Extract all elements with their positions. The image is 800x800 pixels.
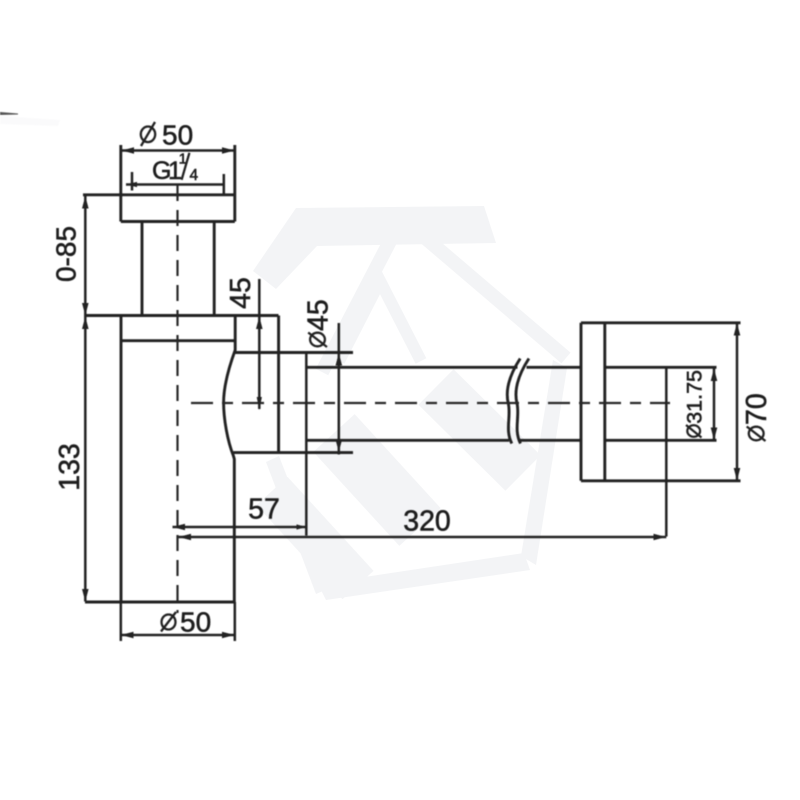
svg-text:45: 45 bbox=[303, 299, 335, 331]
arrow 0-85 top bbox=[82, 196, 89, 209]
dim line G1 1/4 bbox=[126, 183, 224, 186]
wall flange right edge bbox=[603, 323, 606, 481]
ext 57 right / nut right edge bbox=[305, 353, 308, 536]
ext Ø50 bottom right bbox=[234, 602, 237, 641]
wall flange bottom edge + Ø70 extension bbox=[581, 479, 741, 482]
svg-text:G1: G1 bbox=[152, 157, 181, 185]
arm bottom edge bbox=[233, 451, 353, 454]
top cap flange bbox=[83, 193, 235, 196]
arrow O50 bottom left bbox=[121, 632, 134, 639]
arrow G1 left bbox=[126, 182, 137, 187]
label G1 1/4 bbox=[152, 151, 199, 186]
arrow 0-85 bottom bbox=[82, 303, 89, 316]
arrow O45 top bbox=[336, 353, 343, 366]
arrow 57 right bbox=[297, 524, 307, 529]
nut left edge bbox=[277, 316, 280, 453]
dim line 320 bbox=[179, 536, 667, 539]
pipe bottom edge bbox=[306, 439, 716, 442]
label Ø50 top bbox=[141, 119, 193, 150]
label Ø50 bottom bbox=[161, 607, 211, 638]
arrow O31.75 bottom bbox=[711, 428, 718, 441]
arrow 45 top bbox=[256, 317, 263, 330]
horizontal centerline of outlet pipe bbox=[191, 402, 670, 404]
dim line Ø50 top bbox=[121, 149, 235, 152]
dim line Ø70 bbox=[736, 323, 739, 481]
label 133 bbox=[54, 443, 86, 491]
arrow O70 bottom bbox=[734, 468, 741, 481]
svg-text:320: 320 bbox=[403, 506, 451, 538]
dim line Ø45 bbox=[338, 323, 341, 455]
svg-text:50: 50 bbox=[162, 119, 193, 150]
arrow 133 bottom bbox=[82, 589, 89, 602]
arrow 45 bottom bbox=[257, 397, 262, 410]
inlet pipe left edge bbox=[141, 222, 144, 316]
svg-text:50: 50 bbox=[180, 607, 211, 638]
watermark diagonal bands bbox=[272, 387, 523, 585]
ext Ø50 bottom left bbox=[120, 602, 123, 641]
dim line Ø50 bottom bbox=[121, 634, 235, 637]
arrow O70 top bbox=[734, 323, 741, 336]
arrow 320 right bbox=[654, 534, 667, 541]
svg-text:31.75: 31.75 bbox=[683, 370, 707, 424]
svg-text:70: 70 bbox=[741, 393, 773, 425]
wall flange left edge bbox=[580, 323, 583, 481]
watermark hexagon logo bbox=[253, 206, 567, 600]
arrow O50 bottom right bbox=[222, 632, 235, 639]
watermark chevron bbox=[322, 218, 566, 372]
pipe break curve 1 bbox=[507, 359, 520, 444]
body left edge bbox=[120, 316, 123, 603]
dim line Ø31.75 bbox=[713, 369, 716, 441]
dim line 57 bbox=[173, 526, 307, 529]
tick G1 left bbox=[131, 172, 134, 191]
arrow 320 left bbox=[179, 534, 192, 541]
body bottom bbox=[85, 601, 235, 604]
arrow 57 left bbox=[173, 524, 186, 531]
ext 320 right / pipe end cap bbox=[665, 367, 668, 536]
label 45 bbox=[225, 277, 257, 309]
svg-text:45: 45 bbox=[225, 277, 257, 309]
left edge artifact smudge bbox=[0, 112, 18, 115]
dim line 0-85 and 133 bbox=[84, 196, 87, 602]
label Ø31.75 bbox=[683, 370, 707, 438]
tick G1 right bbox=[223, 174, 226, 195]
body right edge and waist curve bbox=[224, 316, 236, 603]
label Ø70 bbox=[741, 393, 773, 441]
pipe top edge bbox=[306, 366, 716, 369]
svg-text:133: 133 bbox=[54, 443, 86, 491]
inlet pipe right edge bbox=[213, 222, 216, 316]
arrow O50 top right bbox=[222, 147, 235, 154]
vertical centerline of body bbox=[176, 185, 178, 613]
body top line bbox=[85, 314, 279, 317]
arrow 133 top bbox=[82, 317, 89, 330]
dim line 45 bbox=[258, 279, 261, 409]
arrow O31.75 top bbox=[711, 369, 718, 382]
pipe break curve 2 bbox=[516, 359, 529, 444]
arm top edge bbox=[235, 351, 353, 354]
wall flange top edge + Ø70 extension bbox=[581, 321, 741, 324]
svg-text:4: 4 bbox=[190, 167, 199, 184]
arrow O45 bottom bbox=[336, 440, 343, 453]
svg-text:57: 57 bbox=[248, 494, 280, 526]
label Ø45 bbox=[303, 299, 335, 347]
body shoulder line bbox=[121, 339, 235, 342]
label 0-85 bbox=[51, 226, 82, 282]
svg-text:0-85: 0-85 bbox=[51, 226, 82, 282]
arrow O50 top left bbox=[122, 147, 135, 154]
